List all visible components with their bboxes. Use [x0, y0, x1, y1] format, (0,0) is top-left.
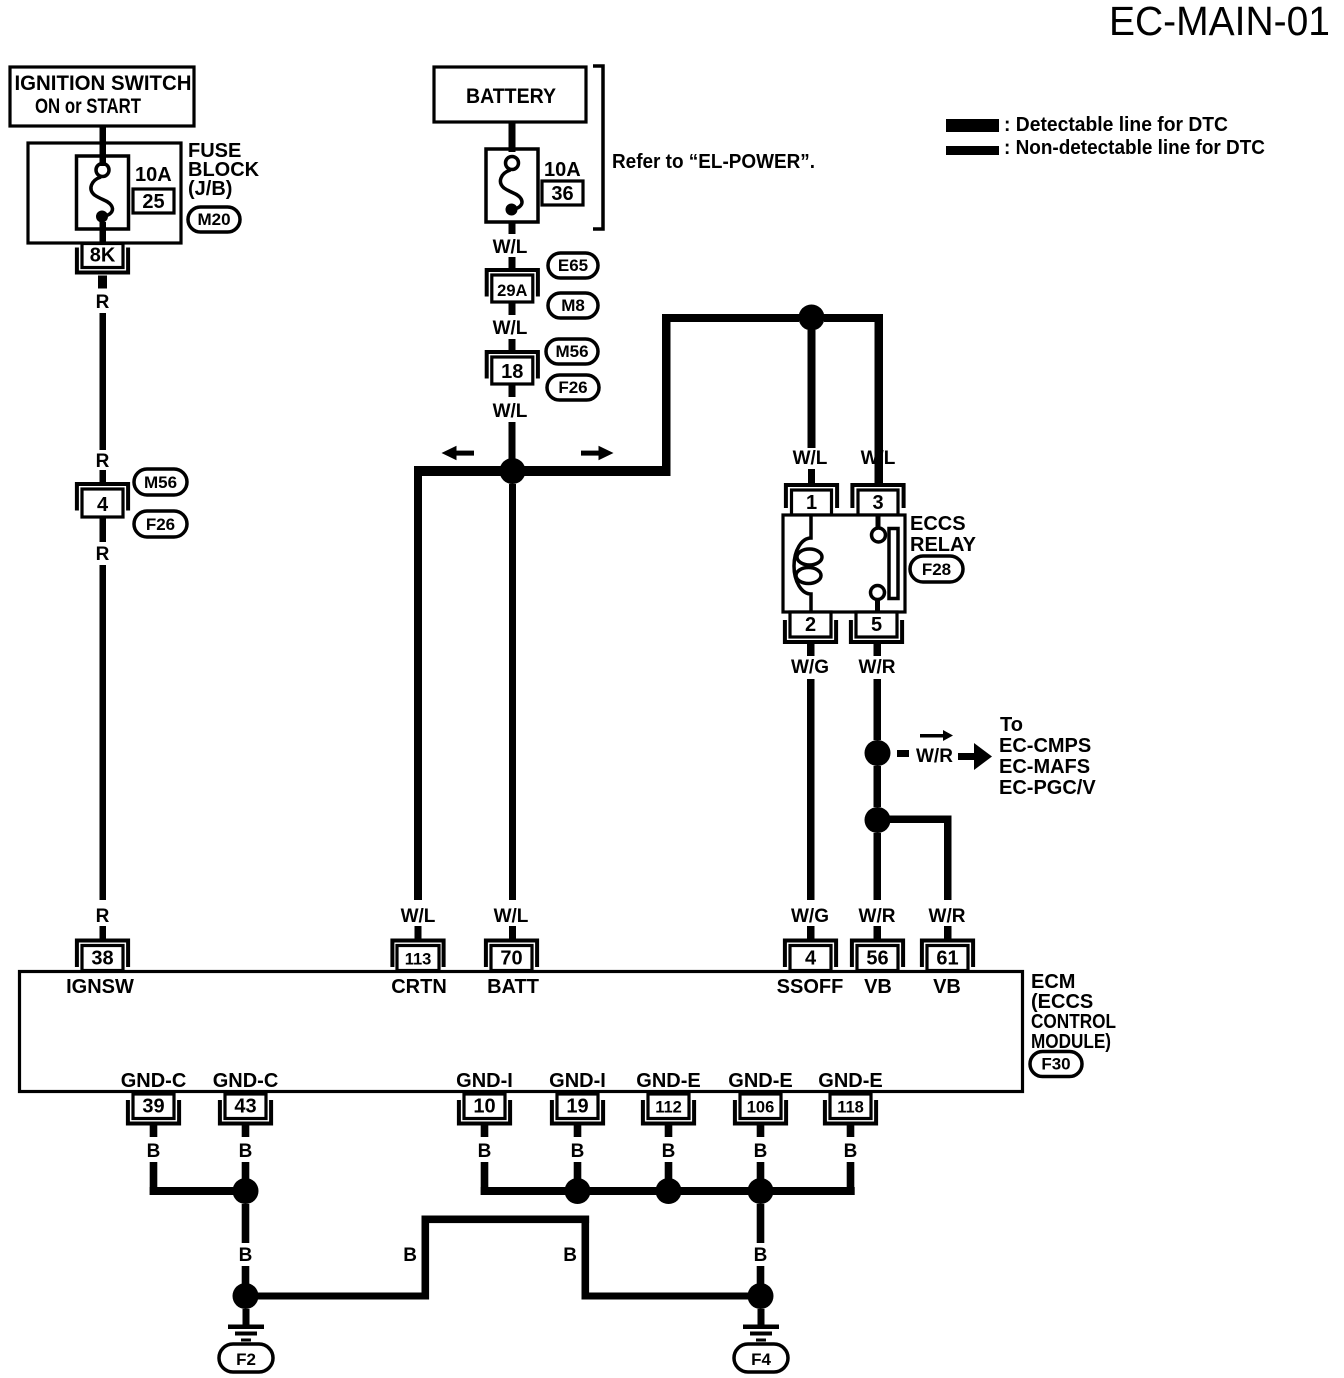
wire R long vertical to ECM	[100, 565, 107, 900]
top feed line left segment	[662, 314, 799, 322]
svg-text:36: 36	[551, 183, 573, 205]
svg-text:CRTN: CRTN	[391, 976, 447, 998]
svg-text:B: B	[754, 1141, 768, 1162]
svg-text:W/G: W/G	[791, 657, 829, 678]
small arrow above W/R	[920, 730, 953, 741]
svg-text:R: R	[96, 906, 110, 927]
wire W/R to node 1	[874, 679, 882, 740]
svg-text:W/L: W/L	[493, 318, 528, 339]
ground symbol F4	[743, 1309, 779, 1342]
svg-text:W/L: W/L	[494, 906, 529, 927]
svg-text:BATTERY: BATTERY	[466, 85, 556, 108]
svg-text:W/R: W/R	[859, 657, 896, 678]
connector M56 oval	[134, 469, 187, 495]
junction node dot	[500, 458, 526, 484]
wire pin 112 down	[665, 1162, 673, 1179]
node dot below pin 19	[565, 1178, 591, 1204]
fuse block label FUSE BLOCK (J/B)	[188, 140, 260, 200]
branch dash at node 1	[897, 750, 909, 757]
svg-text:25: 25	[142, 191, 164, 213]
wire branch down to pin 61	[944, 816, 952, 901]
node dot below pin 112	[656, 1178, 682, 1204]
wire node 2 branch horizontal	[877, 816, 951, 824]
wire bridge top horizontal	[422, 1216, 590, 1224]
relay pin 2	[785, 612, 836, 642]
svg-text:B: B	[403, 1245, 417, 1266]
wire stub below pin 10	[481, 1126, 489, 1138]
wire pin 39 down	[150, 1162, 158, 1195]
svg-text:EC-MAIN-01: EC-MAIN-01	[1109, 0, 1330, 44]
svg-text:GND-E: GND-E	[636, 1070, 700, 1092]
fuse 25 symbol	[77, 156, 129, 229]
wire stub to pin 38	[100, 926, 107, 939]
svg-text:W/L: W/L	[401, 906, 436, 927]
wire stub above connector 4	[100, 470, 107, 484]
wire stub to pin 56	[874, 926, 882, 939]
svg-text:B: B	[239, 1245, 253, 1266]
connector F26 oval	[134, 511, 187, 537]
wire stub relay pin 1	[808, 469, 815, 485]
svg-text:R: R	[96, 451, 110, 472]
wire stub below pin 112	[665, 1126, 673, 1138]
svg-text:: Detectable line for DTC: : Detectable line for DTC	[1004, 114, 1228, 136]
svg-text:113: 113	[405, 951, 432, 969]
fuse number box 36	[542, 181, 583, 205]
legend detectable line bar	[946, 119, 999, 132]
connector M56 oval (mid)	[546, 339, 598, 364]
svg-text:M56: M56	[144, 473, 177, 492]
battery block	[434, 67, 586, 122]
ECCS RELAY label	[910, 513, 977, 556]
svg-text:70: 70	[500, 948, 522, 970]
svg-text:ON or START: ON or START	[35, 95, 141, 118]
ECM pin 39	[128, 1094, 179, 1124]
svg-text:39: 39	[142, 1096, 164, 1118]
wire ignition switch to fuse 25	[100, 126, 107, 166]
svg-text:F30: F30	[1041, 1055, 1070, 1074]
wire bus 39 to 43	[150, 1187, 246, 1195]
wire junction down to pin 70	[509, 484, 516, 900]
wire node down toward ground F2	[242, 1204, 250, 1243]
svg-text:56: 56	[866, 948, 888, 970]
svg-text:W/R: W/R	[929, 906, 966, 927]
node dot below pin 106	[748, 1178, 774, 1204]
relay pin 1	[786, 485, 837, 515]
svg-text:(J/B): (J/B)	[188, 178, 232, 200]
wire to ground node left	[242, 1266, 250, 1284]
svg-text:IGNSW: IGNSW	[66, 976, 134, 998]
wire W/G vertical to pin 4	[807, 679, 815, 900]
wire node down toward ground F4	[757, 1204, 765, 1243]
node dot W/R branch 1	[865, 740, 891, 766]
connector M8 oval	[548, 293, 598, 318]
svg-text:F26: F26	[558, 378, 587, 397]
svg-text:ECM: ECM	[1031, 971, 1075, 993]
wire ground bus left horizontal	[258, 1293, 425, 1300]
wire stub below pin 39	[150, 1126, 158, 1138]
wire pin 10 down	[481, 1162, 489, 1195]
svg-text:B: B	[563, 1245, 577, 1266]
wire bridge left vertical	[422, 1216, 430, 1300]
wire pin 43 down	[242, 1162, 250, 1179]
svg-text:W/L: W/L	[493, 401, 528, 422]
wire node down to relay pin 1	[808, 330, 816, 448]
wire 29A down	[509, 302, 516, 315]
legend non-detectable line bar	[946, 146, 999, 155]
To EC-CMPS EC-MAFS EC-PGC/V text	[999, 714, 1096, 799]
svg-text:F26: F26	[146, 515, 175, 534]
svg-text:R: R	[96, 292, 110, 313]
ECM pin 4	[785, 941, 836, 971]
fuse 36 symbol	[486, 149, 538, 222]
svg-text:4: 4	[97, 494, 109, 516]
node dot below pin 43	[233, 1178, 259, 1204]
wire ground bus right horizontal	[582, 1293, 755, 1300]
svg-text:1: 1	[806, 492, 817, 514]
wire stub below pin 118	[847, 1126, 855, 1138]
wire stub below pin 43	[242, 1126, 250, 1138]
connector F26 oval (mid)	[547, 375, 599, 400]
connector E65 oval	[548, 253, 598, 278]
svg-text:SSOFF: SSOFF	[777, 976, 844, 998]
svg-text:RELAY: RELAY	[910, 534, 977, 556]
wire stub relay pin 3	[875, 469, 882, 485]
svg-text:MODULE): MODULE)	[1031, 1031, 1111, 1053]
ground symbol F2	[228, 1309, 264, 1342]
ECM pin 112	[643, 1094, 694, 1124]
wire stub above 18	[509, 339, 516, 352]
ECM pin 118	[825, 1094, 876, 1124]
ECM pin 43	[220, 1094, 271, 1124]
wire stub below relay pin 2	[807, 644, 815, 656]
svg-text:W/L: W/L	[793, 448, 828, 469]
arrow left	[442, 446, 475, 460]
wire bridge right vertical	[582, 1216, 590, 1300]
svg-text:B: B	[571, 1141, 585, 1162]
svg-text:GND-C: GND-C	[121, 1070, 187, 1092]
svg-text:: Non-detectable line for DTC: : Non-detectable line for DTC	[1004, 137, 1265, 159]
relay pin 3	[852, 485, 903, 515]
fuse block (J/B) box	[28, 143, 181, 243]
relay contact	[871, 515, 899, 612]
svg-text:5: 5	[871, 614, 882, 636]
svg-text:10A: 10A	[135, 164, 172, 186]
svg-text:8K: 8K	[90, 245, 116, 267]
wire top corner down to relay pin 3	[875, 314, 884, 484]
svg-text:43: 43	[234, 1096, 256, 1118]
wire stub below pin 106	[757, 1126, 765, 1138]
wire stub to pin 4	[807, 926, 815, 939]
ignition switch block	[10, 67, 194, 126]
wire 8K down	[98, 276, 107, 289]
svg-text:F2: F2	[236, 1350, 256, 1369]
EL-POWER bracket	[593, 66, 603, 229]
svg-text:EC-MAFS: EC-MAFS	[999, 756, 1090, 778]
svg-text:3: 3	[872, 492, 883, 514]
ground node dot left	[233, 1283, 259, 1309]
wire riser to pin 113	[414, 466, 422, 900]
ECCS relay box	[783, 515, 905, 612]
svg-text:B: B	[662, 1141, 676, 1162]
svg-text:W/L: W/L	[861, 448, 896, 469]
wire R vertical	[100, 313, 107, 450]
ECM pin 10	[459, 1094, 510, 1124]
ECM pin 19	[552, 1094, 603, 1124]
svg-text:B: B	[239, 1141, 253, 1162]
wire W/L to junction	[509, 422, 516, 459]
wire stub to pin 70	[509, 926, 516, 939]
svg-text:F4: F4	[751, 1350, 771, 1369]
svg-text:GND-E: GND-E	[728, 1070, 792, 1092]
svg-text:BATT: BATT	[487, 976, 539, 998]
svg-text:112: 112	[655, 1099, 682, 1117]
wire to ground node right	[757, 1266, 765, 1284]
ECM pin 70	[486, 941, 537, 971]
svg-text:E65: E65	[558, 256, 588, 275]
connector 18	[487, 352, 538, 384]
ECM pin 106	[735, 1094, 786, 1124]
svg-text:W/R: W/R	[859, 906, 896, 927]
svg-text:118: 118	[837, 1099, 864, 1117]
svg-text:EC-PGC/V: EC-PGC/V	[999, 777, 1096, 799]
svg-text:VB: VB	[933, 976, 961, 998]
wire fuse 36 down	[509, 221, 516, 234]
wire stub below pin 19	[574, 1126, 582, 1138]
svg-text:W/L: W/L	[493, 237, 528, 258]
wire pin 19 down	[574, 1162, 582, 1179]
svg-text:EC-CMPS: EC-CMPS	[999, 735, 1091, 757]
svg-text:18: 18	[501, 361, 523, 383]
svg-text:GND-C: GND-C	[213, 1070, 279, 1092]
svg-text:19: 19	[566, 1096, 588, 1118]
svg-text:GND-I: GND-I	[456, 1070, 513, 1092]
svg-text:GND-E: GND-E	[818, 1070, 882, 1092]
svg-text:GND-I: GND-I	[549, 1070, 606, 1092]
connector 8K	[77, 244, 128, 273]
wire riser bus to top feed line	[662, 314, 671, 476]
wire 18 down	[509, 384, 516, 397]
ground connector F2 oval	[219, 1344, 273, 1372]
svg-text:W/R: W/R	[916, 746, 953, 767]
svg-text:ECCS: ECCS	[910, 513, 966, 535]
wire below connector 4	[100, 517, 107, 542]
top feed line right segment	[824, 314, 883, 322]
ground connector F4 oval	[734, 1344, 788, 1372]
svg-text:B: B	[844, 1141, 858, 1162]
ECM pin 61	[922, 941, 973, 971]
svg-text:Refer to “EL-POWER”.: Refer to “EL-POWER”.	[612, 151, 815, 173]
wire stub to pin 61	[944, 926, 952, 939]
relay pin 5	[851, 612, 902, 642]
connector 4 (M56/F26)	[77, 484, 128, 517]
wire stub below relay pin 5	[874, 644, 882, 656]
wire pin 106 down	[757, 1162, 765, 1179]
svg-text:(ECCS: (ECCS	[1031, 991, 1093, 1013]
svg-text:61: 61	[936, 948, 958, 970]
connector M20 oval	[188, 207, 240, 232]
ECM (ECCS CONTROL MODULE) label	[1031, 971, 1116, 1053]
svg-text:VB: VB	[864, 976, 892, 998]
svg-text:M56: M56	[555, 342, 588, 361]
svg-text:38: 38	[91, 948, 113, 970]
node dot W/R branch 2	[865, 807, 891, 833]
svg-text:B: B	[478, 1141, 492, 1162]
ECM pin 38	[77, 941, 128, 971]
svg-text:M8: M8	[561, 296, 585, 315]
svg-text:10A: 10A	[544, 159, 581, 181]
ground node dot right	[748, 1283, 774, 1309]
svg-text:29A: 29A	[497, 282, 527, 300]
arrow right	[581, 446, 614, 460]
wire fuse 25 to connector 8K	[100, 222, 107, 244]
junction bus horizontal	[414, 466, 670, 476]
connector 29A	[487, 270, 538, 302]
svg-text:To: To	[1000, 714, 1023, 736]
wire W/R between nodes	[874, 766, 882, 807]
svg-text:F28: F28	[922, 560, 951, 579]
node dot top feed	[799, 305, 825, 331]
svg-text:B: B	[754, 1245, 768, 1266]
svg-text:106: 106	[747, 1099, 775, 1117]
wire bus 10 to 118	[481, 1187, 855, 1195]
connector F30 oval	[1030, 1052, 1082, 1077]
svg-text:IGNITION SWITCH: IGNITION SWITCH	[15, 72, 192, 95]
thick arrow to EC pages	[958, 743, 992, 770]
svg-text:CONTROL: CONTROL	[1031, 1011, 1116, 1033]
svg-text:R: R	[96, 544, 110, 565]
relay coil	[794, 515, 822, 612]
ECM pin 56	[852, 941, 903, 971]
wire stub above 29A	[509, 257, 516, 269]
svg-text:B: B	[147, 1141, 161, 1162]
wire pin 118 down	[847, 1162, 855, 1195]
svg-text:W/G: W/G	[791, 906, 829, 927]
svg-text:2: 2	[805, 614, 816, 636]
svg-text:M20: M20	[197, 210, 230, 229]
svg-text:10: 10	[473, 1096, 495, 1118]
fuse number box 25	[133, 189, 174, 213]
connector F28 oval	[910, 556, 963, 582]
wire battery to fuse 36	[509, 122, 516, 152]
ECM pin 113	[392, 941, 443, 971]
svg-text:4: 4	[805, 948, 817, 970]
wire W/R node 2 to pin 56	[874, 833, 882, 900]
ECM box	[20, 972, 1023, 1092]
wire stub to pin 113	[415, 926, 422, 939]
